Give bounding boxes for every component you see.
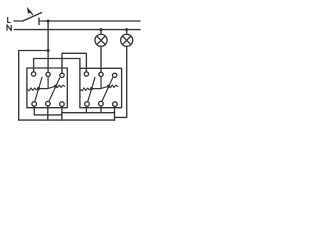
- wire Q2 top-middle terminal to link: [100, 77, 102, 89]
- terminal Q1 bottom-right: [60, 102, 65, 107]
- wire Q1 top-middle terminal to link: [47, 77, 49, 89]
- lamp E2: [121, 34, 133, 46]
- wire lamp E1 stub from N: [100, 30, 102, 35]
- switch S actuation arrow shaft: [31, 12, 33, 15]
- wire bottom bus: [19, 119, 115, 121]
- switch S lever: [23, 13, 42, 22]
- terminal Q2 bottom-left: [85, 102, 90, 107]
- switch Q2 link a-b: [92, 86, 109, 88]
- wire N line: [15, 29, 141, 31]
- junction dot lamp E1 on N: [100, 28, 103, 31]
- terminal Q1 bottom-left: [32, 102, 37, 107]
- switch Q2 pivot a: [90, 87, 93, 90]
- node N label: [7, 25, 11, 31]
- terminal Q1 bottom-middle: [46, 101, 51, 106]
- terminal Q1 top-right: [60, 73, 64, 77]
- wire L lead-in: [14, 20, 23, 22]
- lamp E1: [95, 34, 107, 46]
- wire lamp E2 drop down right side: [115, 46, 127, 117]
- wire branch left and down to bottom bus: [19, 51, 48, 121]
- switch Q1 lever a: [35, 77, 42, 101]
- wire Q1 bottom-right stub to bus: [61, 106, 63, 120]
- wire Q2 bottom-middle stub and jog: [100, 106, 102, 113]
- terminal Q1 top-middle: [46, 72, 50, 76]
- switch Q1 zigzag a: [27, 88, 38, 91]
- wire L drop to left box top-middle terminal: [47, 21, 49, 72]
- terminal Q2 bottom-middle: [99, 101, 104, 106]
- wire Q2 bottom-left stub to bus: [85, 106, 87, 113]
- switch Q2 pivot b: [107, 85, 110, 88]
- terminal Q2 top-right: [112, 73, 116, 77]
- terminal Q2 top-middle: [99, 72, 103, 76]
- wire Q1 bottom-left stub and jog: [34, 106, 62, 115]
- junction dot on L drop branch: [47, 49, 50, 52]
- terminal Q1 top-left: [31, 72, 35, 76]
- switch Q2 zigzag a: [80, 88, 91, 91]
- switch Q1 zigzag b: [56, 85, 65, 88]
- switch S fixed contact tick: [38, 18, 40, 25]
- switch Q1 lever b: [49, 78, 60, 101]
- switch Q1 link a-b: [39, 86, 56, 88]
- wire lamp E2 jog up into right box bottom-right terminal: [114, 107, 116, 121]
- wire lamp E1 drop to right box top-middle terminal: [100, 46, 102, 72]
- switch Q2 lever b: [102, 78, 113, 101]
- wire traveler bridge B: left box top-left up over to right box corner: [34, 59, 80, 72]
- switch S actuation arrow head: [27, 7, 32, 14]
- node L label: [8, 17, 11, 23]
- terminal Q2 bottom-right: [113, 102, 118, 107]
- switch Q2 zigzag b: [109, 85, 118, 88]
- wire lamp E2 stub from N: [126, 30, 128, 35]
- wire Q1 bottom-middle stub to bus: [47, 106, 49, 120]
- wire L line to right: [39, 20, 140, 22]
- switch Q1 pivot b: [54, 85, 57, 88]
- switch box Q1 outline: [27, 68, 67, 108]
- junction dot on L at drop: [47, 20, 50, 23]
- junction dot lamp E2 on N: [125, 28, 128, 31]
- switch box Q2 outline: [80, 68, 122, 107]
- wire mid link line: [62, 112, 115, 114]
- wire traveler bridge A: left box top-right to right box top-left: [62, 53, 86, 73]
- switch Q2 lever a: [88, 77, 95, 101]
- switch Q1 pivot a: [37, 87, 40, 90]
- terminal Q2 top-left: [84, 72, 88, 76]
